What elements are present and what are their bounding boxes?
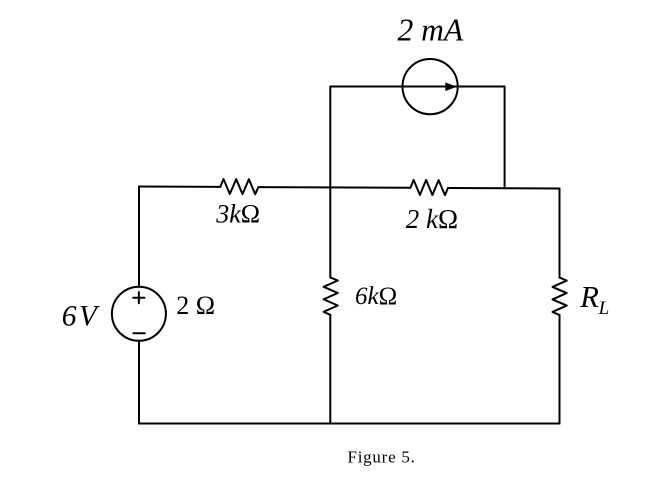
svg-text:2 kΩ: 2 kΩ [406,204,458,234]
svg-text:6 V: 6 V [62,301,100,333]
svg-text:Figure 5.: Figure 5. [348,447,416,466]
svg-text:6kΩ: 6kΩ [355,283,397,310]
svg-text:2 Ω: 2 Ω [176,291,215,320]
svg-text:3kΩ: 3kΩ [215,200,260,229]
svg-text:L: L [598,298,610,319]
svg-text:R: R [579,280,599,314]
svg-text:2 mA: 2 mA [398,12,464,47]
